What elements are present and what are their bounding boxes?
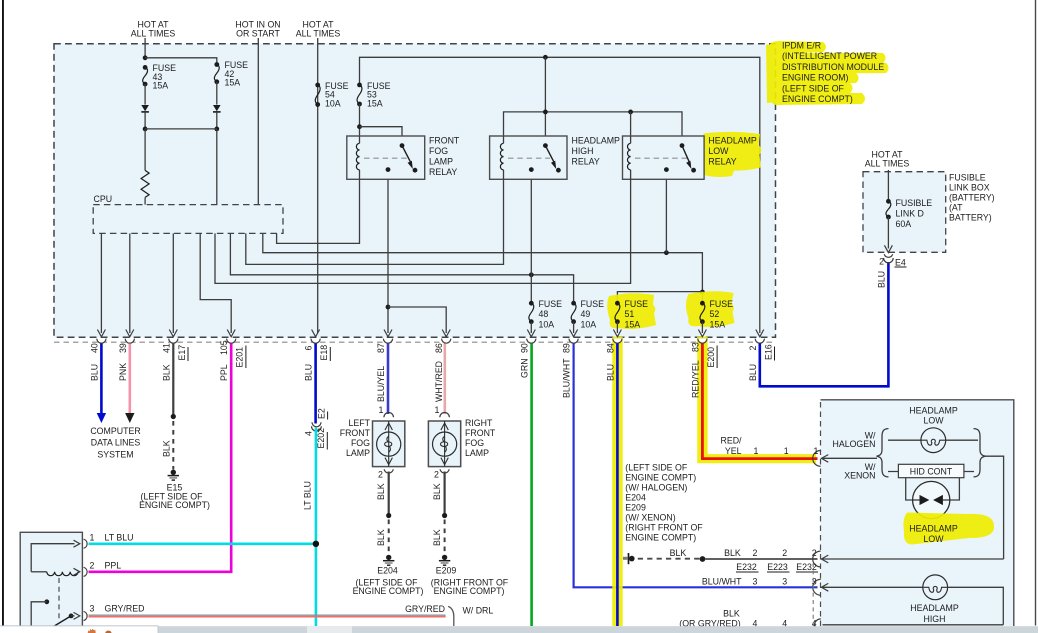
power source HOT AT ALL TIMES (battery) [865, 150, 910, 169]
highlight: fuse 51 [607, 293, 656, 329]
node: fan C crosses HL-high contact drop [529, 272, 534, 277]
svg-text:BLK: BLK [432, 483, 442, 500]
wire: fan A CPU to fuse51/52 feed [263, 233, 703, 292]
svg-text:ALL TIMES: ALL TIMES [131, 29, 176, 39]
svg-text:PNK: PNK [118, 363, 128, 381]
svg-text:1: 1 [379, 405, 384, 415]
wire: battery feed into fusible link [887, 170, 889, 201]
node: diode outputs joined [143, 126, 148, 131]
CPU box [93, 205, 283, 234]
ground E204 [353, 555, 424, 596]
svg-text:BLK: BLK [161, 364, 171, 381]
svg-text:60A: 60A [896, 219, 912, 229]
fusible link box (battery) [863, 172, 946, 253]
svg-text:6: 6 [304, 346, 314, 351]
pin 6 BLU: arrow, connector E18, wire to E202 [304, 330, 331, 424]
svg-text:ENGINE COMPT): ENGINE COMPT) [625, 533, 696, 543]
wire: CPU pin 40 [100, 233, 102, 333]
highlight: headlamp low relay label [694, 132, 762, 177]
svg-text:LOW: LOW [708, 146, 729, 156]
relay: HEADLAMP HIGH RELAY [490, 136, 620, 180]
wire: fuse42 leg to CPU [216, 129, 218, 205]
wire: resistor to CPU [144, 197, 146, 205]
fuse 43 15A [143, 63, 176, 91]
svg-text:E4: E4 [895, 258, 906, 268]
svg-text:39: 39 [118, 343, 128, 353]
node: bus1 to headlamp high relay [543, 55, 548, 60]
svg-text:FRONT: FRONT [429, 136, 460, 146]
svg-text:E232: E232 [736, 562, 757, 572]
svg-text:BLU/WHT: BLU/WHT [562, 358, 572, 398]
computer data lines system [90, 426, 140, 459]
pin 40 BLU: arrow, connector, wire to computer data lines [89, 330, 106, 424]
svg-text:2: 2 [782, 548, 787, 558]
wire: hot2 feed down into CPU [257, 38, 259, 205]
svg-text:2: 2 [378, 470, 383, 480]
svg-text:LAMP: LAMP [429, 157, 453, 167]
brace left (halogen/xenon split) [877, 429, 889, 477]
pin 39 PNK: arrow, connector, wire to computer data lines [118, 330, 135, 424]
svg-text:(AT: (AT [949, 203, 963, 213]
svg-text:HEADLAMP: HEADLAMP [572, 136, 621, 146]
svg-text:2: 2 [753, 548, 758, 558]
HID CONT module [888, 464, 974, 477]
pin 3 connector of headlamp [813, 579, 829, 595]
svg-text:PPL: PPL [105, 561, 122, 571]
svg-text:E18: E18 [319, 345, 329, 361]
svg-text:OR START: OR START [236, 29, 280, 39]
svg-text:HID CONT: HID CONT [910, 467, 953, 477]
svg-text:RELAY: RELAY [429, 167, 457, 177]
svg-text:15A: 15A [710, 320, 726, 330]
wire: left fog lamp BLK to ground [376, 472, 391, 554]
labels: BLK 2 2 2 row [670, 548, 817, 558]
node: fuse51/52 feed junction [700, 290, 705, 295]
svg-text:10A: 10A [581, 320, 597, 330]
svg-text:E223: E223 [767, 562, 788, 572]
node: bus2 to HL-low coil [628, 110, 633, 115]
highlight: fuse 52 [686, 291, 735, 327]
wire: fan B CPU to HL-high relay coil [246, 179, 504, 264]
svg-text:PPL: PPL [219, 364, 229, 381]
headlamp assembly box [821, 400, 1014, 626]
labels: E232 E223 E232 connectors [736, 562, 818, 572]
wire: hot3 feed down to fuse 54 and row [317, 38, 319, 333]
diode D2 [213, 105, 221, 112]
wire: CPU pin 39 [129, 233, 131, 333]
wire: CPU pin to front fog relay coil [277, 179, 360, 243]
highlight: wire 84 BLU [612, 337, 622, 626]
svg-text:HEADLAMP: HEADLAMP [909, 524, 958, 534]
svg-text:WHT/RED: WHT/RED [434, 361, 444, 402]
svg-text:LOW: LOW [923, 534, 944, 544]
svg-text:LINK D: LINK D [896, 209, 924, 219]
fuse 48 10A [529, 299, 562, 333]
svg-text:E232: E232 [796, 562, 817, 572]
svg-text:E16: E16 [763, 344, 773, 360]
wire: fuse 53 to front fog relay coil and pivot [359, 104, 361, 136]
svg-text:E204: E204 [377, 566, 398, 576]
svg-text:YEL: YEL [725, 446, 742, 456]
node: junction fuse43/42 feed [143, 55, 148, 60]
svg-text:15A: 15A [625, 320, 641, 330]
fusible link D 60A [886, 198, 932, 229]
wire: HL-high relay contact down to fuse 48 [530, 179, 532, 303]
fuse 52 15A [700, 299, 733, 333]
svg-text:15A: 15A [367, 98, 383, 108]
wire: pin1 to option brace [821, 457, 877, 459]
wire: bus1 drop to HL-high relay pivot [544, 57, 546, 145]
svg-text:RIGHT: RIGHT [465, 418, 493, 428]
connector E4 pin 2 [876, 245, 906, 288]
lighting switch box (bottom left) [20, 532, 82, 633]
svg-text:2: 2 [90, 561, 95, 571]
svg-text:(INTELLIGENT POWER: (INTELLIGENT POWER [782, 51, 877, 61]
svg-text:3: 3 [782, 576, 787, 586]
svg-text:1: 1 [784, 446, 789, 456]
fuse 54 10A [315, 81, 348, 109]
labels: BLK (OR GRY/RED) 4 4 4 row [679, 609, 817, 629]
svg-text:COMPUTER: COMPUTER [90, 426, 140, 436]
svg-text:(LEFT SIDE OF: (LEFT SIDE OF [782, 83, 845, 93]
labels: BLU/WHT 3 3 3 row [702, 576, 817, 586]
svg-text:FUSE: FUSE [539, 299, 563, 309]
svg-text:LEFT: LEFT [348, 418, 370, 428]
svg-text:2: 2 [434, 470, 439, 480]
pin 4 connector of headlamp [813, 563, 821, 632]
svg-text:E202: E202 [316, 428, 326, 449]
svg-text:E209: E209 [436, 566, 457, 576]
connector E202 / E2 on LT BLU wire [303, 408, 328, 510]
svg-text:3: 3 [753, 576, 758, 586]
wire: HL-low relay contact down [665, 179, 667, 252]
ground E15 [139, 470, 210, 510]
pin 105 PPL: arrow, connector E201, wire to switch pin 2 [89, 330, 246, 572]
pin 90 GRN: arrow, connector, wire down [519, 330, 536, 627]
svg-text:(W/ HALOGEN): (W/ HALOGEN) [625, 483, 687, 493]
svg-text:BLK: BLK [670, 548, 687, 558]
svg-text:RED/YEL: RED/YEL [690, 360, 700, 398]
page left border [2, 0, 4, 626]
label: RED/YEL 1 1 1 row [720, 436, 818, 456]
svg-text:ALL TIMES: ALL TIMES [296, 29, 341, 39]
svg-text:BLU: BLU [605, 364, 615, 381]
svg-text:48: 48 [539, 309, 549, 319]
svg-text:1: 1 [814, 446, 819, 456]
svg-text:ENGINE COMPT): ENGINE COMPT) [625, 473, 696, 483]
svg-text:86: 86 [434, 343, 444, 353]
svg-text:ENGINE COMPT): ENGINE COMPT) [782, 94, 853, 104]
node: LT BLU junction [313, 541, 319, 547]
svg-text:90: 90 [519, 343, 529, 353]
wire: CPU pin 41 [172, 233, 174, 333]
relay: FRONT FOG LAMP RELAY [347, 136, 460, 180]
wire: front fog relay contact down to row (pin 87) [387, 179, 389, 333]
svg-text:BLK: BLK [432, 529, 442, 546]
node: HL-low relay contact joins fan A [664, 250, 669, 255]
wire: fan D CPU to HL-low relay coil [215, 179, 631, 283]
svg-text:HALOGEN: HALOGEN [832, 439, 875, 449]
pin 1 connector of headlamp [813, 451, 829, 467]
label: IPDM E/R (INTELLIGENT POWER DISTRIBUTION MODULE ENGINE ROOM) [782, 41, 884, 105]
diode D1 [141, 105, 149, 112]
svg-text:FUSIBLE: FUSIBLE [896, 198, 933, 208]
svg-text:49: 49 [581, 309, 591, 319]
svg-text:105: 105 [219, 340, 229, 355]
svg-text:E200: E200 [706, 347, 716, 368]
svg-text:HIGH: HIGH [924, 614, 946, 624]
svg-text:GRY/RED: GRY/RED [405, 604, 445, 614]
svg-text:15A: 15A [153, 81, 169, 91]
svg-text:ENGINE COMPT): ENGINE COMPT) [353, 586, 424, 596]
power source HOT IN ON OR START [235, 20, 280, 39]
pin 2 connector of headlamp [813, 551, 829, 567]
svg-text:10A: 10A [539, 320, 555, 330]
svg-text:BLK: BLK [724, 548, 741, 558]
wire: fan C CPU to fuse 49 [230, 233, 573, 303]
svg-text:(BATTERY): (BATTERY) [949, 193, 995, 203]
svg-text:15A: 15A [225, 78, 241, 88]
svg-text:DISTRIBUTION MODULE: DISTRIBUTION MODULE [782, 62, 884, 72]
svg-text:BLU/WHT: BLU/WHT [702, 576, 742, 586]
wire: brace to return leg [986, 456, 1004, 559]
svg-text:RELAY: RELAY [572, 157, 600, 167]
wire: GRY/RED to W/ DRL split [89, 604, 494, 626]
wire: hot1 feed down [144, 38, 146, 58]
svg-text:FUSE: FUSE [710, 299, 734, 309]
wire: fusible link to connector E4 [887, 217, 889, 249]
svg-text:CPU: CPU [94, 194, 113, 204]
svg-text:BLU: BLU [304, 364, 314, 381]
pin 83 RED/YEL: arrow, connector E200, wire to headlamp pin 1 [690, 330, 817, 459]
connector row: IPDM bottom edge second dashed line [54, 341, 776, 343]
wire: fog output jog to pin 86 [388, 307, 446, 333]
page right border [1035, 0, 1036, 626]
svg-text:HIGH: HIGH [572, 146, 594, 156]
left front fog lamp [340, 405, 405, 480]
pin 41 BLK: arrow, connector E17, wire to ground E15 [161, 330, 188, 470]
svg-text:BLU: BLU [748, 364, 758, 381]
wire: feed bus to fuse 51 and 52 [617, 292, 702, 304]
svg-text:ENGINE ROOM): ENGINE ROOM) [782, 73, 849, 83]
browser strip bottom [0, 626, 1038, 633]
svg-text:BLK: BLK [723, 609, 740, 619]
svg-text:84: 84 [605, 343, 615, 353]
svg-text:10A: 10A [325, 98, 341, 108]
svg-text:87: 87 [376, 343, 386, 353]
fuse 53 15A [357, 81, 391, 109]
wire: bus1 battery rail [360, 57, 760, 333]
svg-text:IPDM E/R: IPDM E/R [782, 41, 821, 51]
switch pin connectors [84, 539, 88, 620]
svg-text:SYSTEM: SYSTEM [97, 449, 133, 459]
pin 87 BLU/YEL: arrow, connector, wire to left fog lamp [376, 330, 393, 415]
pin 84 BLU: arrow, connector, wire down (highlighted) [605, 330, 622, 627]
svg-text:DATA LINES: DATA LINES [91, 438, 141, 448]
labels: switch pins [90, 533, 145, 614]
high-beam bulb [821, 575, 1003, 625]
svg-text:FUSE: FUSE [625, 299, 649, 309]
svg-text:BATTERY): BATTERY) [949, 213, 992, 223]
power source HOT AT ALL TIMES (third) [296, 20, 341, 39]
svg-text:HEADLAMP: HEADLAMP [910, 603, 959, 613]
svg-text:RED/: RED/ [720, 436, 742, 446]
svg-text:ENGINE COMPT): ENGINE COMPT) [139, 500, 210, 510]
fuse 42 15A [214, 60, 248, 88]
svg-text:E209: E209 [625, 503, 646, 513]
svg-text:FOG: FOG [465, 438, 484, 448]
wire: fuse43 to diode [144, 84, 146, 105]
svg-text:XENON: XENON [844, 471, 875, 481]
fuse 51 15A [615, 299, 648, 333]
svg-text:(RIGHT FRONT OF: (RIGHT FRONT OF [625, 523, 703, 533]
wire: diodes to junction bar [144, 113, 146, 129]
highlight: HEADLAMP LOW label in box [903, 513, 994, 545]
svg-text:BLU: BLU [876, 271, 886, 288]
xenon D2 bulb [906, 478, 960, 519]
logo fragment (orange) [88, 629, 112, 633]
svg-text:1: 1 [90, 533, 95, 543]
svg-text:41: 41 [161, 343, 171, 353]
pin 2 BLU: arrow, connector E16, wire to fusible link [748, 262, 889, 386]
svg-text:51: 51 [625, 309, 635, 319]
svg-text:FOG: FOG [351, 438, 370, 448]
svg-text:LT BLU: LT BLU [105, 533, 134, 543]
wire: to resistor [144, 129, 146, 171]
wire: fuse42 to diode [216, 82, 218, 105]
svg-text:1: 1 [754, 446, 759, 456]
svg-text:FOG: FOG [429, 146, 448, 156]
svg-text:E2: E2 [316, 408, 326, 419]
svg-text:LAMP: LAMP [346, 448, 370, 458]
svg-text:FUSE: FUSE [581, 299, 605, 309]
pin 86 WHT/RED: arrow, connector, wire to right fog lamp [434, 330, 451, 415]
svg-text:(W/ XENON): (W/ XENON) [625, 513, 675, 523]
svg-text:BLU/YEL: BLU/YEL [376, 366, 386, 402]
svg-text:HEADLAMP: HEADLAMP [909, 406, 958, 416]
node: bus2 crossing [543, 110, 548, 115]
node: fog output split [386, 305, 391, 310]
svg-text:BLK: BLK [376, 529, 386, 546]
wire: right fog lamp BLK to ground [432, 472, 447, 554]
svg-text:3: 3 [90, 604, 95, 614]
svg-text:2: 2 [879, 257, 884, 267]
svg-text:52: 52 [710, 309, 720, 319]
halogen low-beam bulb [888, 428, 978, 453]
svg-text:FRONT: FRONT [465, 428, 496, 438]
resistor R1 [141, 170, 149, 197]
power source HOT AT ALL TIMES (left) [131, 20, 176, 39]
highlight: wire 83 RED/YEL [697, 337, 816, 463]
svg-text:ALL TIMES: ALL TIMES [865, 159, 910, 169]
svg-text:BLK: BLK [161, 440, 171, 457]
svg-text:BLU: BLU [89, 364, 99, 381]
svg-text:1: 1 [435, 405, 440, 415]
svg-text:83: 83 [690, 342, 700, 352]
svg-text:GRY/RED: GRY/RED [105, 604, 145, 614]
svg-text:E201: E201 [235, 347, 245, 368]
wire: pin4 row inside box [823, 624, 1004, 626]
svg-text:RELAY: RELAY [708, 157, 736, 167]
svg-text:4: 4 [304, 431, 314, 436]
svg-text:40: 40 [89, 343, 99, 353]
svg-text:E17: E17 [177, 345, 187, 361]
relay: HEADLAMP LOW RELAY [623, 136, 757, 180]
wire: LT BLU down and to switch pin 1 [315, 428, 318, 627]
brace right [974, 429, 986, 477]
svg-text:E204: E204 [625, 493, 646, 503]
svg-text:HEADLAMP: HEADLAMP [708, 136, 757, 146]
highlight: IPDM E/R label [766, 41, 889, 105]
wire: pin2 return inside headlamp box [821, 558, 1003, 560]
note: connector location text block [625, 463, 703, 543]
svg-text:89: 89 [562, 343, 572, 353]
svg-text:W/ DRL: W/ DRL [463, 606, 494, 616]
svg-text:GRN: GRN [519, 358, 529, 378]
svg-text:LINK BOX: LINK BOX [949, 183, 990, 193]
wire: bus2 drop to HL-low relay coil [630, 112, 632, 136]
ground E209 [431, 555, 509, 596]
wire: branch to fuse 42 [145, 58, 217, 65]
right front fog lamp [428, 405, 496, 480]
svg-text:LAMP: LAMP [465, 448, 489, 458]
svg-text:FRONT: FRONT [340, 428, 371, 438]
svg-text:LOW: LOW [923, 416, 944, 426]
svg-text:2: 2 [748, 346, 758, 351]
fuse 49 10A [571, 299, 604, 333]
svg-text:BLK: BLK [376, 483, 386, 500]
wire: CPU pin jog to pin 105 [200, 233, 231, 333]
wire: BLK pin 2 with body ground terminal [623, 553, 818, 564]
wire: bus2 coil rail [504, 112, 683, 146]
svg-text:FUSIBLE: FUSIBLE [949, 173, 986, 183]
pin 89 BLU/WHT: arrow, connector, wire to headlamp high pin 3 [562, 330, 818, 588]
svg-text:LT BLU: LT BLU [303, 481, 313, 510]
IPDM E/R module box [54, 44, 776, 338]
svg-text:ENGINE COMPT): ENGINE COMPT) [434, 586, 505, 596]
svg-text:(LEFT SIDE OF: (LEFT SIDE OF [625, 463, 688, 473]
